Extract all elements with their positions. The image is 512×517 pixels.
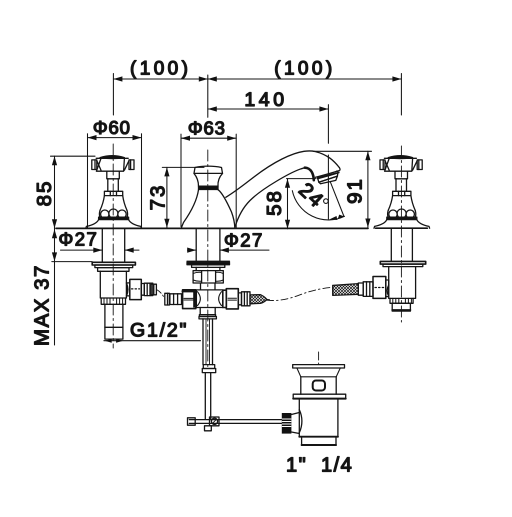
link dash-dot left [157,290,164,298]
svg-text:(100): (100) [274,59,335,80]
tee left ribbed nut [170,294,182,305]
thread band [390,298,413,303]
svg-text:73: 73 [146,184,169,211]
stem upper [395,171,408,179]
handle wing connectors [385,161,389,171]
flange thin top [187,260,230,262]
svg-text:91: 91 [343,177,366,204]
bell bottom line [376,227,428,229]
hose dash-dot curve [267,287,334,300]
dimension phi60 [88,134,142,228]
flange bold [187,262,230,264]
ring 2 [199,317,216,319]
handle right wing tip [129,160,134,170]
waist band bold [199,186,219,189]
end block [392,303,410,311]
handle left wing tip [380,160,385,170]
angle 24 deg arc [292,182,344,220]
bonnet collar [104,191,122,195]
thread band [101,298,125,304]
dimension G1/2 [104,339,201,343]
below tee neck [200,308,215,315]
mouth slab [318,173,338,183]
knob stem cone [291,413,299,434]
svg-text:1": 1" [286,455,307,477]
extension line spout center [207,75,209,117]
bell [86,220,142,229]
under-deck flange [92,262,135,265]
head hood tip [337,168,341,172]
flange [293,394,346,399]
tee right ribbed nut [242,292,251,306]
handle wing connectors [97,161,101,171]
overflow hole [313,381,325,391]
small ribbed nut [144,283,153,295]
locknut [98,268,129,272]
snap arc [299,410,302,433]
dimension phi27 left [61,248,140,253]
ring 1 [199,315,215,317]
svg-text:Φ27: Φ27 [224,229,264,250]
valve body [389,267,416,299]
pivot block [210,417,220,426]
valve body [100,271,126,298]
side collar [386,280,389,297]
svg-text:Φ27: Φ27 [59,228,99,249]
bold crescent [305,168,314,181]
dimension phi63 [181,134,236,227]
handle top lens [100,156,124,159]
bead ring [99,210,127,217]
bold band [387,217,417,219]
dimension 73 vertical [162,167,204,227]
tee body [196,290,222,308]
handle front wing [96,158,124,171]
tee left port bold edge [193,290,196,307]
svg-text:G1/2": G1/2" [130,320,188,342]
neck [194,173,223,186]
handle top lens [388,156,412,159]
bell [182,190,235,228]
stem lower [108,179,119,192]
svg-text:1/4: 1/4 [321,455,353,477]
pivot tab [205,426,212,431]
tee left big nut [183,290,196,309]
tip pieces [151,284,156,295]
stem lower [396,179,407,192]
right valve centerline [400,146,402,322]
lower body [302,437,336,445]
pipe segment [196,267,220,270]
cap [194,166,223,173]
side port collar [127,283,130,296]
dimension 58 vertical [285,179,316,229]
drain centerline stub [318,352,320,365]
extension line left valve center [112,74,114,116]
under-deck pipe [102,228,124,262]
neck pipe to tee [201,283,216,290]
ribbed nut [363,282,373,297]
upper body [301,377,336,394]
handle right wing tip [417,160,422,170]
stem upper [107,171,120,179]
dimension (100)(100) top chain line [113,76,401,81]
handle left wing tip [92,160,97,170]
dimension 85 vertical [51,156,96,228]
spout tip centerline through head [327,155,329,219]
svg-text:85: 85 [33,180,56,207]
bonnet [100,196,127,211]
svg-text:Φ63: Φ63 [188,117,226,138]
step rings [141,284,144,296]
lift rod tube [203,319,213,365]
under-deck pipe [391,228,412,261]
svg-text:140: 140 [244,89,287,111]
compression nut big [373,277,386,299]
funnel [297,368,340,377]
bead ring [388,210,416,217]
svg-text:(100): (100) [130,59,191,80]
flange lower plate [192,265,225,268]
side port bulge (left) [387,285,389,296]
svg-text:58: 58 [263,189,286,216]
coupling [203,365,214,369]
tee right rings [238,293,241,305]
tee right collar [223,290,227,307]
horizontal lever bar [189,420,281,424]
dimension 91 vertical [313,151,372,227]
dimension phi27 center [187,248,269,253]
lift rod [205,373,210,419]
aerator tip [319,176,338,184]
braided hose [333,284,359,296]
tee left end cap [165,293,170,305]
ring [358,283,363,295]
left valve centerline [112,144,114,348]
bell [374,220,430,229]
spout arm bottom edge [235,168,305,227]
spout arm top edge [226,151,339,197]
side port bulge [126,283,128,296]
bonnet [388,196,415,211]
under-deck flange [380,261,425,264]
handle front wing [385,158,413,171]
bar left end block [188,418,196,425]
shank [105,304,123,339]
hex nut [193,271,223,283]
svg-text:MAX 37: MAX 37 [31,264,54,346]
top plate [293,365,345,368]
extension line right valve center [400,74,402,116]
tee right big nut [226,289,238,309]
braided hose right of tee [250,295,267,304]
bonnet collar [393,191,411,195]
dimension 140 line [208,106,329,111]
under-deck pipe [196,228,220,261]
main body [299,399,338,437]
bold band [99,217,129,219]
extension line spout tip [327,105,329,144]
dimension MAX 37 vertical [52,223,92,346]
compression nut big [130,279,142,299]
deck line [56,227,368,229]
hood band lines [316,171,339,178]
spout centerline [207,150,209,368]
knurled knob [282,413,292,434]
svg-text:Φ60: Φ60 [93,117,131,138]
